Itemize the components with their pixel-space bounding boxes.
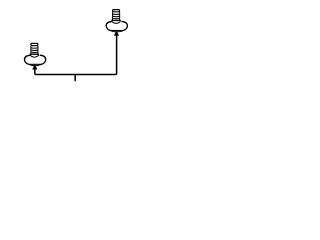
spark plug (left) (25, 43, 46, 69)
spark plug (right) (106, 10, 127, 36)
junction stub (tap on bottom wire) (74, 75, 76, 81)
wire: left lead down, bottom run, right lead up (35, 35, 117, 74)
